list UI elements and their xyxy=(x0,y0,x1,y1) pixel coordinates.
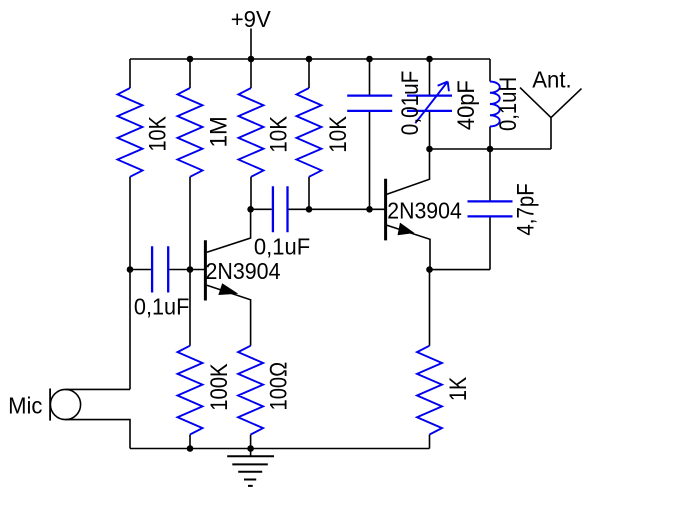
svg-text:2N3904: 2N3904 xyxy=(206,258,281,284)
svg-text:0,1uF: 0,1uF xyxy=(254,234,310,260)
svg-text:0,01uF: 0,01uF xyxy=(397,71,424,136)
svg-text:10K: 10K xyxy=(145,116,172,151)
svg-text:1K: 1K xyxy=(445,377,472,401)
svg-text:2N3904: 2N3904 xyxy=(387,198,462,224)
svg-text:4,7pF: 4,7pF xyxy=(512,183,539,235)
svg-text:100Ω: 100Ω xyxy=(266,362,293,411)
svg-text:10K: 10K xyxy=(325,116,352,153)
svg-text:Ant.: Ant. xyxy=(532,67,572,93)
svg-text:10K: 10K xyxy=(266,116,293,153)
svg-text:0,1uF: 0,1uF xyxy=(134,293,190,319)
svg-text:+9V: +9V xyxy=(231,6,272,32)
svg-text:0,1uH: 0,1uH xyxy=(495,77,522,131)
svg-text:40pF: 40pF xyxy=(453,80,480,130)
svg-text:Mic: Mic xyxy=(8,393,42,419)
svg-text:1M: 1M xyxy=(205,116,232,147)
svg-text:100K: 100K xyxy=(206,363,233,410)
